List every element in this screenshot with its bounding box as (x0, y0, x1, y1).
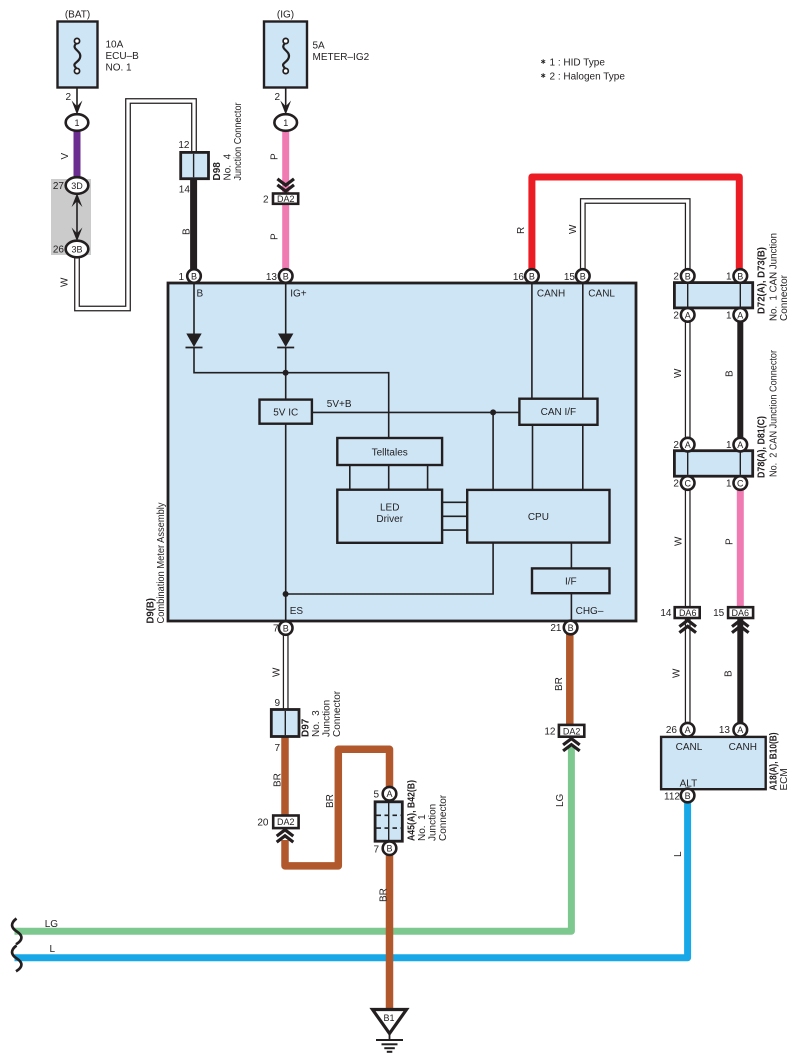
svg-text:ES: ES (290, 606, 304, 617)
svg-text:ECU–B: ECU–B (106, 51, 140, 62)
svg-text:B: B (197, 289, 204, 300)
svg-text:W: W (672, 668, 683, 678)
svg-text:B: B (283, 271, 289, 281)
svg-text:ECM: ECM (779, 768, 790, 790)
svg-text:1: 1 (178, 272, 184, 283)
svg-text:1: 1 (726, 272, 732, 283)
svg-text:Driver: Driver (376, 514, 403, 525)
svg-text:3B: 3B (71, 245, 82, 255)
svg-text:C: C (684, 478, 691, 488)
svg-text:A: A (737, 725, 743, 735)
svg-text:Connector: Connector (332, 690, 343, 737)
svg-text:16: 16 (513, 272, 525, 283)
svg-text:1 : HID Type: 1 : HID Type (550, 58, 606, 69)
svg-text:A: A (386, 789, 392, 799)
svg-text:CANL: CANL (588, 289, 615, 300)
svg-text:D9(B): D9(B) (146, 598, 157, 624)
svg-text:7: 7 (274, 743, 280, 754)
svg-text:CANL: CANL (676, 742, 703, 753)
svg-text:Connector: Connector (779, 274, 790, 321)
svg-text:W: W (674, 536, 685, 546)
svg-text:26: 26 (53, 245, 65, 256)
svg-text:B: B (568, 623, 574, 633)
svg-text:2: 2 (673, 479, 679, 490)
svg-text:LED: LED (380, 503, 399, 514)
svg-text:A: A (737, 440, 743, 450)
svg-text:L: L (50, 944, 56, 955)
svg-text:BR: BR (379, 888, 390, 902)
svg-text:V: V (60, 153, 71, 160)
svg-text:B: B (580, 271, 586, 281)
svg-text:CAN I/F: CAN I/F (541, 407, 577, 418)
svg-text:W: W (673, 368, 684, 378)
svg-text:CHG–: CHG– (576, 606, 604, 617)
svg-text:5A: 5A (313, 41, 326, 52)
svg-text:No. 4: No. 4 (222, 153, 233, 180)
svg-text:26: 26 (666, 725, 678, 736)
svg-text:2: 2 (65, 92, 71, 103)
svg-text:DA2: DA2 (563, 726, 581, 736)
svg-text:B: B (529, 271, 535, 281)
svg-text:1: 1 (726, 440, 732, 451)
svg-text:C: C (737, 478, 744, 488)
svg-text:L: L (673, 851, 684, 857)
svg-text:CPU: CPU (528, 512, 549, 523)
svg-text:W: W (272, 667, 283, 677)
svg-text:A: A (685, 310, 691, 320)
svg-text:13: 13 (719, 725, 731, 736)
svg-text:12: 12 (178, 140, 190, 151)
svg-text:D97: D97 (301, 718, 312, 737)
svg-text:B: B (725, 370, 736, 377)
svg-text:CANH: CANH (537, 289, 565, 300)
svg-text:Combination Meter Assembly: Combination Meter Assembly (156, 503, 167, 624)
svg-text:2: 2 (274, 92, 280, 103)
svg-text:No. 3: No. 3 (311, 710, 322, 737)
svg-text:B: B (386, 844, 392, 854)
svg-text:I/F: I/F (565, 576, 577, 587)
svg-text:2 : Halogen Type: 2 : Halogen Type (550, 72, 626, 83)
svg-text:R: R (516, 227, 527, 234)
svg-text:B: B (191, 271, 197, 281)
svg-text:15: 15 (564, 272, 576, 283)
svg-text:NO. 1: NO. 1 (106, 63, 133, 74)
svg-text:IG+: IG+ (290, 289, 307, 300)
svg-text:5: 5 (373, 790, 379, 801)
svg-text:W: W (568, 224, 579, 234)
svg-text:BR: BR (325, 794, 336, 808)
svg-text:METER–IG2: METER–IG2 (313, 52, 370, 63)
svg-text:B1: B1 (383, 1013, 394, 1023)
svg-text:B: B (182, 228, 193, 235)
svg-text:ALT: ALT (680, 779, 698, 790)
svg-text:B: B (685, 791, 691, 801)
svg-text:W: W (60, 277, 71, 287)
svg-text:Telltales: Telltales (372, 447, 408, 458)
svg-text:5V IC: 5V IC (273, 407, 298, 418)
svg-text:BR: BR (554, 677, 565, 691)
svg-text:No. 2 CAN Junction Connector: No. 2 CAN Junction Connector (768, 349, 779, 477)
svg-text:2: 2 (673, 440, 679, 451)
svg-text:DA2: DA2 (277, 194, 295, 204)
svg-text:B: B (737, 271, 743, 281)
svg-text:B: B (283, 623, 289, 633)
svg-text:2: 2 (673, 272, 679, 283)
svg-text:3D: 3D (71, 181, 83, 191)
svg-text:P: P (270, 233, 281, 240)
svg-text:DA6: DA6 (732, 608, 750, 618)
svg-text:P: P (725, 538, 736, 545)
svg-text:14: 14 (179, 185, 191, 196)
svg-text:A: A (685, 440, 691, 450)
svg-text:7: 7 (373, 845, 379, 856)
svg-text:D72(A), D73(B): D72(A), D73(B) (756, 247, 767, 314)
svg-text:DA6: DA6 (679, 608, 697, 618)
svg-text:Junction Connector: Junction Connector (233, 102, 244, 181)
svg-text:10A: 10A (106, 40, 124, 51)
svg-text:13: 13 (266, 272, 278, 283)
svg-text:112: 112 (664, 792, 680, 803)
svg-text:9: 9 (274, 698, 280, 709)
svg-text:P: P (270, 153, 281, 160)
svg-text:Junction: Junction (322, 700, 333, 737)
svg-text:D98: D98 (212, 162, 223, 181)
svg-text:A45(A), B42(B): A45(A), B42(B) (407, 780, 418, 841)
svg-text:21: 21 (550, 623, 562, 634)
svg-text:1: 1 (283, 118, 288, 128)
svg-text:A: A (685, 725, 691, 735)
svg-text:27: 27 (53, 181, 65, 192)
svg-text:LG: LG (45, 919, 59, 930)
svg-text:12: 12 (544, 727, 556, 738)
svg-text:1: 1 (74, 118, 79, 128)
svg-text:14: 14 (660, 608, 672, 619)
svg-text:B: B (724, 670, 735, 677)
svg-text:D78(A), D81(C): D78(A), D81(C) (756, 416, 767, 478)
svg-text:No. 1 CAN Junction: No. 1 CAN Junction (768, 233, 779, 321)
svg-text:Junction: Junction (427, 804, 438, 841)
svg-text:A18(A), B10(B): A18(A), B10(B) (768, 733, 779, 791)
svg-text:2: 2 (673, 311, 679, 322)
svg-text:CANH: CANH (729, 742, 757, 753)
svg-text:Connector: Connector (438, 794, 449, 841)
svg-text:2: 2 (263, 195, 269, 206)
svg-text:A: A (737, 310, 743, 320)
svg-text:LG: LG (555, 793, 566, 807)
svg-text:1: 1 (726, 479, 732, 490)
svg-text:20: 20 (257, 817, 269, 828)
svg-text:(BAT): (BAT) (65, 10, 90, 21)
svg-text:BR: BR (273, 773, 284, 787)
svg-text:1: 1 (726, 311, 732, 322)
svg-text:B: B (685, 271, 691, 281)
svg-text:No. 1: No. 1 (417, 814, 428, 841)
svg-text:5V+B: 5V+B (327, 399, 352, 410)
svg-text:7: 7 (273, 624, 279, 635)
svg-text:DA2: DA2 (277, 817, 295, 827)
svg-text:(IG): (IG) (277, 10, 294, 21)
svg-text:15: 15 (713, 608, 725, 619)
